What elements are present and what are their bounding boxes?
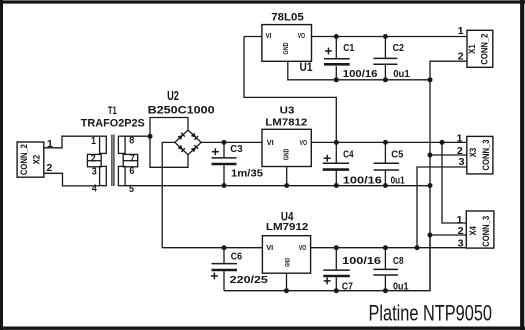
- capacitor C4: [323, 142, 383, 186]
- svg-text:Platine NTP9050: Platine NTP9050: [369, 301, 493, 326]
- wire node to bridge AC bottom: [150, 136, 188, 167]
- svg-text:U3: U3: [280, 105, 295, 116]
- svg-text:C6: C6: [231, 252, 243, 263]
- connector X1: [467, 30, 493, 67]
- junction C1 bottom: [334, 77, 339, 82]
- T1 pin 7 label: [130, 153, 135, 164]
- junction C3 top: [222, 140, 227, 145]
- T1 pin 8 label: [129, 136, 134, 147]
- svg-text:X1: X1: [467, 44, 477, 54]
- svg-text:3: 3: [459, 157, 465, 168]
- wire X1 pin2 to GND bus: [430, 61, 467, 80]
- junction +12V C4 top: [334, 140, 339, 145]
- wire X2 pin2 to T1 pin4: [44, 173, 100, 186]
- svg-text:2: 2: [91, 153, 96, 164]
- svg-text:C5: C5: [391, 149, 403, 160]
- svg-text:X2: X2: [31, 155, 41, 165]
- T1 pin 6 label: [129, 166, 134, 177]
- svg-text:VO: VO: [299, 243, 307, 252]
- wire U3 GND to ground rail: [286, 167, 288, 186]
- wire U4 VI row: [162, 247, 263, 249]
- T1 pin 1 label: [91, 136, 96, 147]
- svg-text:3: 3: [458, 239, 464, 250]
- svg-text:U1: U1: [300, 62, 314, 74]
- svg-text:0u1: 0u1: [393, 69, 410, 80]
- svg-text:CONN_3: CONN_3: [481, 140, 491, 171]
- junction C8 bottom: [383, 288, 388, 293]
- svg-text:100/16: 100/16: [343, 176, 383, 187]
- svg-text:VO: VO: [300, 138, 308, 147]
- svg-text:2: 2: [457, 146, 463, 157]
- T1 pin 2 label: [91, 153, 96, 164]
- T1 pin 3 label: [92, 166, 97, 177]
- wire U3 VO +12V rail: [311, 141, 467, 143]
- X4 pin 2 label: [458, 226, 464, 237]
- junction C6 top: [222, 245, 227, 250]
- svg-text:GND: GND: [282, 148, 291, 160]
- junction C2 bottom: [383, 77, 388, 82]
- wire U1 VI: [244, 36, 262, 38]
- title Platine NTP9050: [369, 301, 493, 326]
- svg-text:2: 2: [458, 226, 464, 237]
- voltage regulator U4: [262, 209, 310, 273]
- junction C4 bottom: [334, 183, 339, 188]
- voltage regulator U1: [262, 12, 313, 74]
- svg-text:220/25: 220/25: [230, 275, 269, 286]
- svg-text:6: 6: [129, 166, 134, 177]
- junction -12V rail tap: [415, 245, 420, 250]
- T1 secondary stubs pins 7,6: [123, 154, 138, 166]
- svg-text:U2: U2: [167, 89, 179, 103]
- svg-text:B250C1000: B250C1000: [148, 105, 215, 117]
- svg-text:0u1: 0u1: [393, 281, 409, 292]
- wire U1 VI feed from +12V: [244, 37, 336, 143]
- junction U3 GND: [284, 183, 289, 188]
- diode bottom-right: [191, 145, 198, 152]
- voltage regulator U3: [262, 105, 311, 166]
- junction X3 pin2 tap: [428, 153, 433, 158]
- svg-text:2: 2: [458, 51, 464, 62]
- diode top-left: [178, 133, 185, 140]
- svg-text:VI: VI: [266, 31, 272, 40]
- svg-text:1m/35: 1m/35: [231, 169, 263, 180]
- svg-text:C8: C8: [393, 256, 404, 267]
- svg-text:1: 1: [457, 215, 463, 226]
- capacitor C5: [374, 142, 405, 186]
- svg-text:TRAFO2P2S: TRAFO2P2S: [81, 118, 145, 130]
- svg-text:CONN_3: CONN_3: [481, 216, 491, 247]
- svg-text:C1: C1: [343, 43, 354, 54]
- junction X4 pin2: [428, 233, 433, 238]
- svg-text:2: 2: [46, 163, 52, 174]
- wire bridge plus to U3 VI: [201, 141, 262, 143]
- capacitor C6: [211, 248, 269, 291]
- X3 pin 3 label: [459, 157, 465, 168]
- svg-text:C4: C4: [343, 150, 354, 161]
- connector X3: [467, 136, 493, 174]
- wire U4 GND to bottom rail: [286, 273, 288, 291]
- svg-text:CONN_2: CONN_2: [480, 34, 490, 65]
- X2 pin 2 label: [46, 163, 52, 174]
- capacitor C2: [373, 37, 410, 80]
- T1 primary winding tooth (pin 1): [100, 136, 107, 153]
- X3 pin 1 label: [457, 134, 463, 145]
- svg-text:3: 3: [92, 166, 97, 177]
- wire bridge minus to U4 row: [162, 142, 175, 247]
- junction C1 top: [334, 34, 339, 39]
- junction pin8 node: [148, 134, 153, 139]
- X4 pin 1 label: [457, 215, 463, 226]
- junction C3 bottom: [222, 183, 227, 188]
- T1 core: [111, 135, 113, 187]
- wire node to bridge AC top: [150, 118, 188, 137]
- connector X2: [17, 142, 44, 177]
- svg-text:VI: VI: [267, 138, 274, 147]
- T1 secondary winding tooth (pin 5): [118, 166, 125, 185]
- svg-text:78L05: 78L05: [271, 12, 304, 24]
- junction C5 bottom: [383, 183, 388, 188]
- junction C2 top: [383, 34, 388, 39]
- X3 pin 2 label: [457, 146, 463, 157]
- svg-text:GND: GND: [281, 42, 290, 54]
- junction ground rail end: [428, 183, 433, 188]
- capacitor C7: [323, 248, 381, 293]
- T1 secondary winding tooth (pin 8): [118, 136, 125, 153]
- capacitor C3: [212, 142, 264, 185]
- junction C8 top: [383, 245, 388, 250]
- T1 pin 4 label: [92, 184, 97, 195]
- diode bottom-left: [178, 145, 185, 152]
- svg-text:4: 4: [92, 184, 97, 195]
- svg-text:8: 8: [129, 136, 134, 147]
- wire U1 VO +5V rail: [311, 36, 466, 38]
- X4 pin 3 label: [458, 239, 464, 250]
- svg-text:7: 7: [130, 153, 135, 164]
- svg-text:0u1: 0u1: [391, 175, 405, 186]
- bridge rectifier U2: [148, 89, 215, 155]
- svg-text:1: 1: [47, 139, 53, 150]
- svg-text:X4: X4: [468, 225, 478, 235]
- wire +12V bus to X4 pin1: [442, 142, 466, 223]
- T1 primary stubs pins 2,3: [87, 154, 101, 166]
- svg-text:100/16: 100/16: [342, 256, 381, 267]
- svg-text:1: 1: [458, 26, 464, 37]
- svg-text:T1: T1: [108, 105, 117, 117]
- junction C7 top: [334, 245, 339, 250]
- junction +12V bus tap: [440, 140, 445, 145]
- ground rail from T1 pin5: [125, 185, 430, 187]
- wire GND bus vertical: [429, 80, 431, 291]
- wire bottom rail: [224, 235, 466, 291]
- capacitor C8: [373, 248, 408, 293]
- transformer T1: [81, 105, 145, 186]
- svg-text:C2: C2: [393, 43, 405, 54]
- svg-text:100/16: 100/16: [343, 69, 378, 80]
- capacitor C1: [324, 37, 378, 80]
- X1 pin 2 label: [458, 51, 464, 62]
- svg-text:C3: C3: [230, 144, 243, 155]
- diode top-right: [191, 132, 198, 139]
- svg-text:X3: X3: [468, 148, 478, 158]
- wire T1 pin8 to node: [125, 135, 150, 137]
- X2 pin 1 label: [47, 139, 53, 150]
- wire X2 pin1 to T1 pin1: [44, 136, 100, 148]
- svg-text:1: 1: [91, 136, 96, 147]
- svg-text:1: 1: [457, 134, 463, 145]
- connector X4: [466, 211, 494, 248]
- wire U1 GND to 0V return: [288, 61, 430, 80]
- junction U4 GND: [284, 288, 289, 293]
- wire X3 pin3 to -12V rail: [417, 167, 467, 248]
- junction C7 bottom: [334, 288, 339, 293]
- T1 pin 5 label: [129, 184, 134, 195]
- svg-text:VO: VO: [298, 31, 305, 40]
- T1 primary winding tooth (pin 4): [100, 166, 107, 185]
- junction GND bus top: [428, 77, 433, 82]
- svg-text:LM7812: LM7812: [265, 118, 307, 129]
- svg-text:LM7912: LM7912: [266, 221, 309, 233]
- wire X3 pin2: [430, 154, 467, 156]
- svg-text:C7: C7: [342, 281, 353, 292]
- wire U4 VO -12V rail: [311, 247, 466, 249]
- svg-text:GND: GND: [285, 257, 291, 266]
- svg-text:CONN_2: CONN_2: [19, 144, 29, 175]
- junction C5 top: [383, 140, 388, 145]
- X1 pin 1 label: [458, 26, 464, 37]
- svg-text:VI: VI: [266, 243, 273, 252]
